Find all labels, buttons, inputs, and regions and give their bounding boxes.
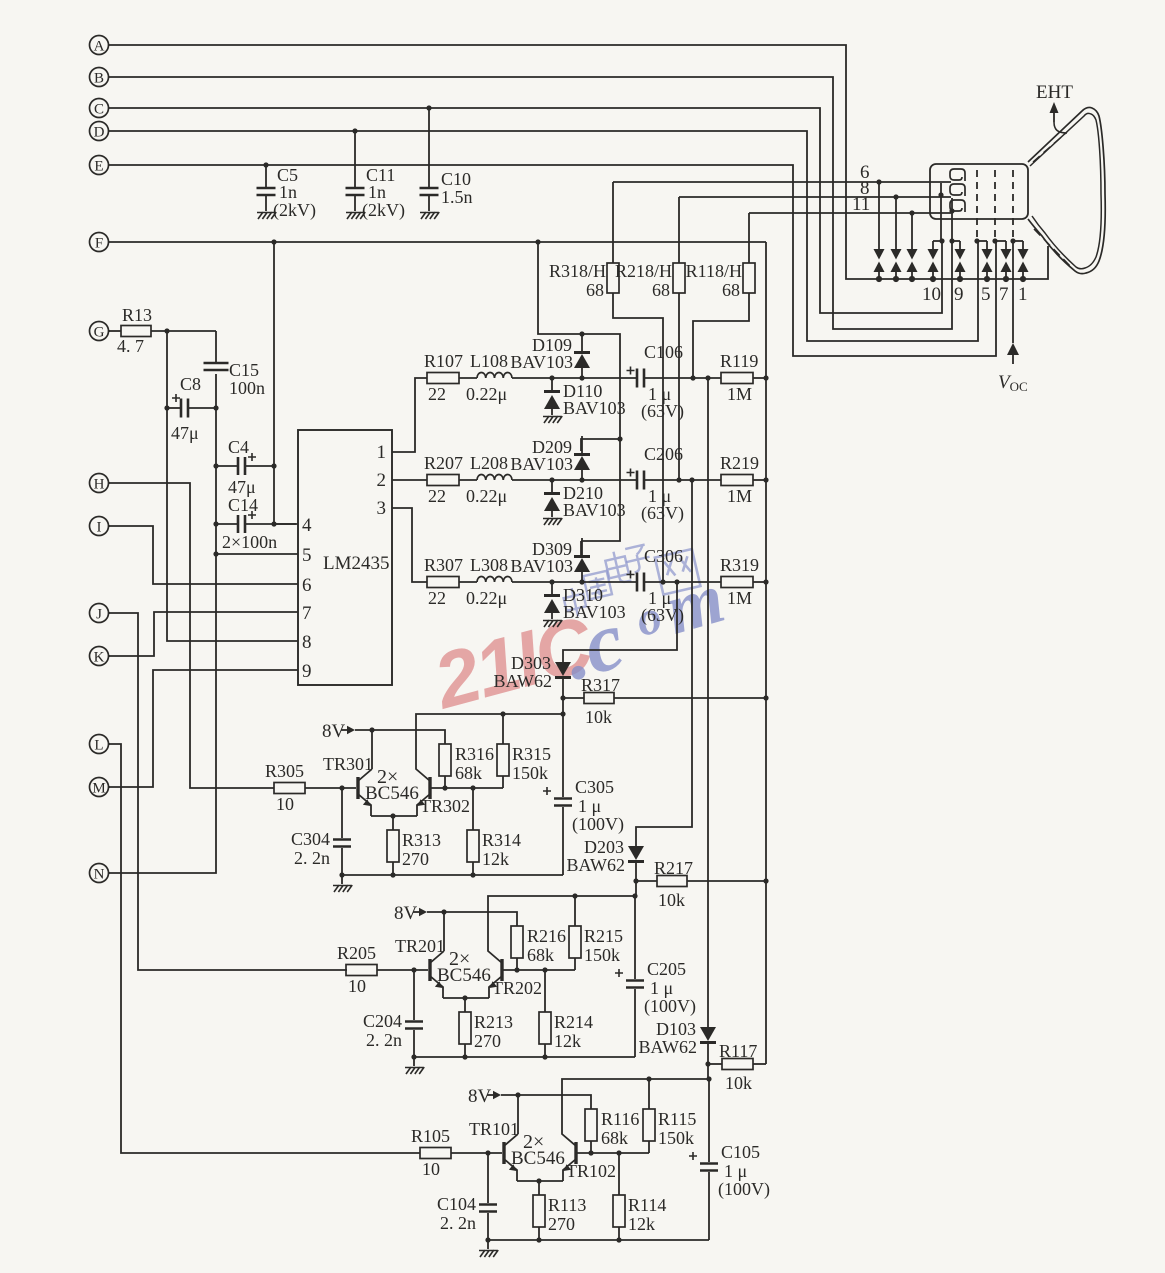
resistor R305 10 bbox=[265, 761, 356, 814]
wire 8V feed TR101 bbox=[487, 1091, 591, 1109]
wire F riser to pin 4 bbox=[274, 242, 296, 524]
svg-text:6: 6 bbox=[302, 575, 312, 596]
junction dot D209 bbox=[579, 477, 584, 482]
capacitor C106 1u 63V bbox=[627, 342, 722, 422]
spark gap at pin10 bbox=[928, 241, 939, 282]
svg-text:68: 68 bbox=[722, 280, 740, 300]
wire emitter rail TR201 bbox=[443, 997, 489, 999]
diode D110 BAV103 to ground bbox=[543, 378, 626, 423]
svg-text:A: A bbox=[94, 39, 105, 55]
wire pin 1 riser to row 1 bbox=[392, 378, 427, 452]
junction dot gnd C304 bbox=[339, 872, 344, 877]
junction dot R319 right bbox=[763, 579, 768, 584]
wire 8V feed TR201 bbox=[413, 908, 517, 926]
svg-text:R116: R116 bbox=[601, 1109, 639, 1129]
terminal M bbox=[90, 778, 111, 797]
ground TR201 stage bbox=[405, 1057, 424, 1074]
svg-text:9: 9 bbox=[954, 284, 964, 305]
svg-text:R117: R117 bbox=[719, 1041, 757, 1061]
wire Voc column bbox=[1012, 241, 1014, 364]
wire right rail from F down to R117 bbox=[765, 242, 767, 1064]
junction dot jog9 bbox=[949, 238, 954, 243]
svg-text:(100V): (100V) bbox=[572, 814, 624, 835]
transistor TR101 2xBC546 bbox=[469, 1095, 519, 1181]
terminal C bbox=[90, 99, 111, 118]
capacitor C14 2x100n bbox=[216, 495, 298, 552]
wire bus D to CRT pin 5 bbox=[110, 131, 978, 341]
junction dot rail tie bbox=[617, 436, 622, 441]
svg-text:TR201: TR201 bbox=[395, 936, 445, 956]
junction dot base-R316 bbox=[442, 785, 447, 790]
transistor TR301 2xBC546 bbox=[323, 730, 373, 816]
svg-text:1: 1 bbox=[1018, 284, 1028, 305]
svg-text:47μ: 47μ bbox=[228, 477, 256, 497]
spark gap at line8 bbox=[891, 197, 902, 282]
svg-text:H: H bbox=[94, 477, 105, 493]
junction dot line8 gap bbox=[893, 194, 898, 199]
svg-text:BC546: BC546 bbox=[365, 783, 419, 804]
junction dot emitter rail bbox=[536, 1178, 541, 1183]
svg-text:C10: C10 bbox=[441, 169, 471, 189]
wire J down to stage2 input bbox=[108, 613, 347, 970]
junction dot R119 right bbox=[763, 375, 768, 380]
junction dot D110 bbox=[549, 375, 554, 380]
junction dot R219 right bbox=[763, 477, 768, 482]
resistor R317 10k bbox=[563, 675, 766, 727]
junction dot base TR101 bbox=[485, 1150, 490, 1155]
capacitor C4 47u bbox=[216, 437, 274, 497]
svg-text:270: 270 bbox=[474, 1031, 501, 1051]
pin 1 label bbox=[377, 442, 387, 463]
resistor R215 150k bbox=[569, 896, 623, 965]
spark gap at pin1 bbox=[1018, 241, 1029, 282]
svg-text:1 μ: 1 μ bbox=[724, 1161, 747, 1181]
wire D309 cathode stem bbox=[580, 541, 582, 555]
capacitor C304 2.2n bbox=[291, 788, 351, 875]
resistor R113 270 bbox=[533, 1181, 586, 1240]
label 6 bbox=[860, 162, 870, 183]
wire L down to stage1 input bbox=[108, 744, 420, 1153]
resistor R205 10 bbox=[337, 943, 428, 996]
junction dot C105 top bbox=[706, 1076, 711, 1081]
resistor R13 4.7 bbox=[108, 305, 216, 356]
wire I to pin 6 bbox=[108, 526, 298, 584]
junction dot jog5 bbox=[974, 238, 979, 243]
svg-text:D103: D103 bbox=[656, 1019, 696, 1039]
svg-text:L308: L308 bbox=[470, 555, 508, 575]
wire M to pin 9 bbox=[108, 670, 298, 787]
svg-text:5: 5 bbox=[302, 545, 312, 566]
pin 4 label bbox=[302, 515, 312, 536]
junction dot R317 left bbox=[560, 695, 565, 700]
terminal J bbox=[90, 604, 111, 623]
capacitor C15 100n bbox=[204, 360, 266, 398]
CRT pin column 1 dashed bbox=[1012, 170, 1014, 241]
label 11 bbox=[852, 194, 870, 215]
svg-text:B: B bbox=[94, 71, 104, 87]
junction dot base-R116 bbox=[588, 1150, 593, 1155]
svg-text:12k: 12k bbox=[554, 1031, 581, 1051]
transistor TR102 2xBC546 bbox=[562, 1079, 709, 1181]
capacitor C204 2.2n bbox=[363, 970, 423, 1057]
junction dot D203 feed on row2 bbox=[689, 477, 694, 482]
pin 3 label bbox=[377, 498, 387, 519]
junction dot base-R216 bbox=[514, 967, 519, 972]
svg-text:EHT: EHT bbox=[1036, 82, 1073, 103]
label 8V TR101 stage bbox=[468, 1086, 492, 1107]
svg-text:10: 10 bbox=[348, 976, 366, 996]
junction dot gnd R213 bbox=[462, 1054, 467, 1059]
svg-text:C15: C15 bbox=[229, 360, 259, 380]
label pin 1 bbox=[1018, 284, 1028, 305]
wire row3 to D303 bbox=[563, 582, 677, 662]
svg-text:R307: R307 bbox=[424, 555, 463, 575]
CRT pin column 10 bbox=[940, 183, 942, 241]
junction dot R117 left bbox=[705, 1061, 710, 1066]
spark gap at line6 bbox=[874, 182, 885, 282]
svg-text:68k: 68k bbox=[455, 763, 482, 783]
inductor L208 0.22u bbox=[466, 453, 637, 506]
wire bus C to CRT pin 10 bbox=[110, 108, 942, 313]
CRT funnel aquadag dash bottom bbox=[1034, 229, 1072, 268]
svg-text:R213: R213 bbox=[474, 1012, 513, 1032]
junction dot D103 feed on row1 bbox=[705, 375, 710, 380]
svg-text:R113: R113 bbox=[548, 1195, 586, 1215]
resistor R313 270 bbox=[387, 816, 441, 875]
svg-text:68k: 68k bbox=[601, 1128, 628, 1148]
watermark 21IC.com bbox=[423, 599, 603, 726]
wire bus E to CRT pin 7 bbox=[110, 165, 996, 356]
svg-text:1M: 1M bbox=[727, 486, 752, 506]
wire pin 2 to row 2 bbox=[392, 479, 427, 481]
resistor R318/H 68 bbox=[549, 182, 663, 582]
label pin 9 bbox=[954, 284, 964, 305]
svg-text:K: K bbox=[94, 650, 105, 666]
svg-text:1M: 1M bbox=[727, 588, 752, 608]
svg-text:68: 68 bbox=[586, 280, 604, 300]
svg-text:4: 4 bbox=[302, 515, 312, 536]
resistor R307 22 bbox=[424, 555, 477, 608]
pin 5 label bbox=[302, 545, 312, 566]
wire emitter rail TR101 bbox=[517, 1180, 563, 1182]
label pin 5 bbox=[981, 284, 991, 305]
svg-text:F: F bbox=[95, 236, 103, 252]
svg-text:R305: R305 bbox=[265, 761, 304, 781]
svg-text:TR301: TR301 bbox=[323, 754, 373, 774]
svg-text:M: M bbox=[92, 781, 105, 797]
terminal N bbox=[90, 864, 111, 883]
label 8V TR301 stage bbox=[322, 721, 346, 742]
svg-text:R13: R13 bbox=[122, 305, 152, 325]
diode D309 BAV103 bbox=[510, 538, 590, 582]
svg-text:BAW62: BAW62 bbox=[566, 855, 625, 875]
junction dot R118/H drop on row1 bbox=[690, 375, 695, 380]
svg-text:C104: C104 bbox=[437, 1194, 476, 1214]
capacitor C205 1u 100V bbox=[615, 896, 696, 1057]
junction dot emitter rail bbox=[462, 995, 467, 1000]
terminal I bbox=[90, 517, 111, 536]
diode D109 BAV103 bbox=[510, 334, 590, 378]
junction dot gnd R314 bbox=[470, 872, 475, 877]
svg-text:10: 10 bbox=[922, 284, 941, 305]
svg-text:0.22μ: 0.22μ bbox=[466, 588, 507, 608]
capacitor C10 1.5n with ground bbox=[420, 108, 473, 219]
junction dot C4 left bbox=[213, 463, 218, 468]
svg-text:2. 2n: 2. 2n bbox=[366, 1030, 402, 1050]
wire R13 node down to pin 8 bbox=[167, 331, 298, 641]
svg-text:1M: 1M bbox=[727, 384, 752, 404]
svg-text:47μ: 47μ bbox=[171, 423, 199, 443]
terminal L bbox=[90, 735, 111, 754]
svg-text:R217: R217 bbox=[654, 858, 693, 878]
diode D103 BAW62 bbox=[638, 1019, 716, 1079]
svg-text:8V: 8V bbox=[468, 1086, 492, 1107]
junction dot C8 right bbox=[213, 405, 218, 410]
diode D310 BAV103 to ground bbox=[543, 582, 626, 627]
spark gap at pin7 bbox=[1001, 241, 1012, 282]
junction dot C14 right bbox=[271, 521, 276, 526]
Voc arrow bbox=[1007, 343, 1019, 355]
CRT electrode loop pin6 bbox=[950, 169, 965, 181]
junction dot collector TR101 bbox=[515, 1092, 520, 1097]
svg-text:9: 9 bbox=[302, 661, 312, 682]
svg-text:5: 5 bbox=[981, 284, 991, 305]
svg-text:R216: R216 bbox=[527, 926, 566, 946]
svg-text:BAW62: BAW62 bbox=[638, 1037, 697, 1057]
resistor R118/H 68 bbox=[686, 213, 755, 378]
svg-text:68: 68 bbox=[652, 280, 670, 300]
svg-text:7: 7 bbox=[302, 603, 312, 624]
wire G node to C15 and down to N bbox=[108, 331, 216, 873]
svg-text:10: 10 bbox=[422, 1159, 440, 1179]
junction dot line6 gap bbox=[876, 179, 881, 184]
wire line 11 to CRT bbox=[749, 212, 951, 214]
wire row1 to D103 bbox=[707, 378, 709, 1027]
svg-text:VOC: VOC bbox=[998, 372, 1028, 394]
svg-text:D203: D203 bbox=[584, 837, 624, 857]
svg-text:22: 22 bbox=[428, 486, 446, 506]
capacitor C305 1u 100V bbox=[543, 714, 624, 875]
wire jog pin10 bbox=[933, 240, 942, 242]
inductor L308 0.22u bbox=[466, 555, 637, 608]
svg-text:8: 8 bbox=[302, 632, 312, 653]
wire H down to stage3 input bbox=[108, 483, 274, 788]
svg-text:TR102: TR102 bbox=[566, 1161, 616, 1181]
resistor R117 10k bbox=[708, 1041, 766, 1093]
svg-text:R207: R207 bbox=[424, 453, 463, 473]
svg-text:C8: C8 bbox=[180, 374, 201, 394]
junction dot gnd C204 bbox=[411, 1054, 416, 1059]
junction dot base TR301 bbox=[339, 785, 344, 790]
diode D209 BAV103 bbox=[510, 436, 590, 480]
wire jog pin7 bbox=[995, 240, 1006, 242]
svg-text:R318/H: R318/H bbox=[549, 261, 606, 281]
svg-text:BAV103: BAV103 bbox=[510, 454, 573, 474]
svg-text:7: 7 bbox=[999, 284, 1009, 305]
svg-text:C304: C304 bbox=[291, 829, 330, 849]
transistor TR302 2xBC546 bbox=[416, 714, 563, 816]
junction dot collector TR301 bbox=[369, 727, 374, 732]
wire bus F bbox=[110, 241, 766, 243]
junction dot base-R214 bbox=[542, 967, 547, 972]
svg-text:(100V): (100V) bbox=[718, 1179, 770, 1200]
junction dot gnd C104 bbox=[485, 1237, 490, 1242]
svg-text:G: G bbox=[94, 325, 105, 341]
CRT electrode loop pin11 bbox=[950, 200, 965, 212]
wire bus A to spark-gap common rail bbox=[110, 45, 1048, 279]
svg-text:10k: 10k bbox=[725, 1073, 752, 1093]
CRT pin column 5 dashed bbox=[976, 170, 978, 241]
wire emitter rail TR301 bbox=[371, 815, 417, 817]
wire ground rail TR301 stage bbox=[342, 874, 563, 876]
junction dot D210 bbox=[549, 477, 554, 482]
label 8V TR201 stage bbox=[394, 903, 418, 924]
spark gap at pin9 bbox=[955, 241, 966, 282]
pin 7 label bbox=[302, 603, 312, 624]
svg-text:(100V): (100V) bbox=[644, 996, 696, 1017]
junction dot R218/H drop on row2 bbox=[676, 477, 681, 482]
wire pin 3 riser to row 3 bbox=[392, 508, 427, 582]
wire 8V feed TR301 bbox=[341, 726, 445, 744]
svg-text:I: I bbox=[97, 520, 102, 536]
svg-text:1 μ: 1 μ bbox=[578, 796, 601, 816]
svg-text:1n: 1n bbox=[279, 182, 297, 202]
resistor R116 68k bbox=[585, 1109, 639, 1153]
svg-text:E: E bbox=[94, 159, 103, 175]
terminal E bbox=[90, 156, 111, 175]
svg-text:R317: R317 bbox=[581, 675, 620, 695]
spark gap at line11 bbox=[907, 213, 918, 282]
svg-text:D: D bbox=[94, 125, 105, 141]
junction dot gnd R214 bbox=[542, 1054, 547, 1059]
svg-text:R118/H: R118/H bbox=[686, 261, 742, 281]
svg-text:BAV103: BAV103 bbox=[510, 352, 573, 372]
junction dot pin5 node bbox=[213, 551, 218, 556]
svg-text:10k: 10k bbox=[658, 890, 685, 910]
svg-text:C105: C105 bbox=[721, 1142, 760, 1162]
junction dot R115 top bbox=[646, 1076, 651, 1081]
junction dot jog10 bbox=[939, 238, 944, 243]
svg-text:LM2435: LM2435 bbox=[323, 553, 390, 574]
svg-text:8V: 8V bbox=[322, 721, 346, 742]
terminal A bbox=[90, 36, 111, 55]
svg-text:R219: R219 bbox=[720, 453, 759, 473]
svg-text:C205: C205 bbox=[647, 959, 686, 979]
wire D209 cathode rail bbox=[581, 439, 620, 451]
svg-text:0.22μ: 0.22μ bbox=[466, 384, 507, 404]
svg-text:11: 11 bbox=[852, 194, 870, 215]
capacitor C11 1n 2kV with ground bbox=[346, 131, 406, 221]
CRT pin column 7 dashed bbox=[994, 170, 996, 241]
svg-text:2. 2n: 2. 2n bbox=[440, 1213, 476, 1233]
junction dot R215 top bbox=[572, 893, 577, 898]
junction dot R315 top bbox=[500, 711, 505, 716]
junction dot C8 left bbox=[164, 405, 169, 410]
label pin 7 bbox=[999, 284, 1009, 305]
pin 8 label bbox=[302, 632, 312, 653]
wire line 8 to CRT bbox=[679, 196, 951, 198]
svg-text:TR101: TR101 bbox=[469, 1119, 519, 1139]
wire jog pin5 bbox=[977, 240, 987, 242]
svg-text:12k: 12k bbox=[628, 1214, 655, 1234]
svg-text:R313: R313 bbox=[402, 830, 441, 850]
svg-text:BAV103: BAV103 bbox=[563, 398, 626, 418]
wire line 6 to CRT bbox=[613, 181, 951, 183]
svg-text:150k: 150k bbox=[658, 1128, 694, 1148]
junction dot R217 left bbox=[633, 878, 638, 883]
wire pin 5 bbox=[216, 553, 298, 555]
resistor R316 68k bbox=[439, 744, 494, 788]
IC U1 LM2435 bbox=[298, 430, 392, 685]
svg-text:R105: R105 bbox=[411, 1126, 450, 1146]
svg-text:BAV103: BAV103 bbox=[563, 602, 626, 622]
svg-text:68k: 68k bbox=[527, 945, 554, 965]
ground TR101 stage bbox=[479, 1240, 498, 1257]
wire bus B to CRT pin 9 bbox=[110, 77, 952, 329]
svg-text:R316: R316 bbox=[455, 744, 494, 764]
svg-text:C: C bbox=[94, 102, 104, 118]
svg-text:1: 1 bbox=[377, 442, 387, 463]
capacitor C306 1u 63V bbox=[627, 546, 722, 626]
junction dot C305 top bbox=[560, 711, 565, 716]
junction dot C205 top bbox=[632, 893, 637, 898]
junction dot gnd R113 bbox=[536, 1237, 541, 1242]
junction dot D303 feed on row3 bbox=[674, 579, 679, 584]
junction dot C4 right bbox=[271, 463, 276, 468]
junction dot base-R314 bbox=[470, 785, 475, 790]
resistor R114 12k bbox=[613, 1153, 666, 1240]
svg-text:150k: 150k bbox=[512, 763, 548, 783]
junction dot col9 top bbox=[949, 208, 954, 213]
label 2x BC546 bbox=[511, 1131, 565, 1169]
junction dot base TR201 bbox=[411, 967, 416, 972]
svg-text:100n: 100n bbox=[229, 378, 265, 398]
wire ground rail TR201 stage bbox=[414, 1056, 635, 1058]
resistor R207 22 bbox=[424, 453, 477, 506]
svg-text:R205: R205 bbox=[337, 943, 376, 963]
svg-text:270: 270 bbox=[402, 849, 429, 869]
junction dot D109 cathode on rail bbox=[579, 331, 584, 336]
junction dot jog7 bbox=[992, 238, 997, 243]
svg-text:22: 22 bbox=[428, 384, 446, 404]
diode D303 BAW62 bbox=[493, 653, 571, 714]
wire base line TR302 bbox=[431, 776, 503, 788]
junction dot R13 node bbox=[164, 328, 169, 333]
wire jog pin1 bbox=[1013, 240, 1023, 242]
terminal H bbox=[90, 474, 111, 493]
junction dot F to diode rail bbox=[535, 239, 540, 244]
svg-text:R215: R215 bbox=[584, 926, 623, 946]
junction dot D310 bbox=[549, 579, 554, 584]
svg-text:BAV103: BAV103 bbox=[563, 500, 626, 520]
resistor R216 68k bbox=[511, 926, 566, 970]
label Voc bbox=[998, 372, 1028, 394]
ground TR301 stage bbox=[333, 875, 352, 892]
svg-text:2: 2 bbox=[377, 470, 387, 491]
capacitor C105 1u 100V bbox=[689, 1079, 770, 1240]
resistor R119 1M bbox=[720, 351, 766, 404]
pin 2 label bbox=[377, 470, 387, 491]
pin 9 label bbox=[302, 661, 312, 682]
svg-text:TR302: TR302 bbox=[420, 796, 470, 816]
svg-text:270: 270 bbox=[548, 1214, 575, 1234]
resistor R218/H 68 bbox=[615, 197, 685, 480]
svg-text:4. 7: 4. 7 bbox=[117, 336, 144, 356]
svg-text:R214: R214 bbox=[554, 1012, 593, 1032]
CRT pin column 9 bbox=[951, 198, 953, 241]
svg-text:R119: R119 bbox=[720, 351, 758, 371]
svg-text:2×100n: 2×100n bbox=[222, 532, 277, 552]
